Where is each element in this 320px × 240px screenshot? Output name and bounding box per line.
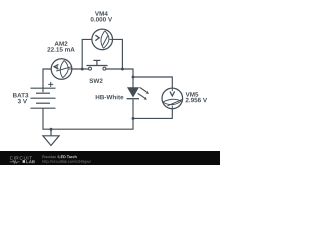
label HB-White xyxy=(96,95,124,100)
node B VM4 right junction xyxy=(121,68,124,71)
LED HB-White xyxy=(127,87,139,99)
label 0.000 V xyxy=(91,17,112,21)
watermark title xyxy=(59,155,77,158)
voltmeter VM4 xyxy=(92,29,113,50)
LED light arrow 1 xyxy=(140,87,150,94)
label 22.15 mA xyxy=(47,47,74,51)
label 3 V xyxy=(18,99,27,103)
label BAT3 xyxy=(13,93,28,97)
logo square icon xyxy=(23,160,25,163)
battery BAT3 xyxy=(31,88,56,108)
wire VM5 top lead xyxy=(133,77,172,88)
wire battery positive to ammeter xyxy=(43,69,51,92)
watermark bar xyxy=(0,151,220,165)
node D LED-VM5 bottom junction xyxy=(132,117,135,120)
wire LED cathode to battery negative xyxy=(43,99,133,129)
LED light arrow 2 xyxy=(138,93,147,100)
battery plus sign xyxy=(48,82,53,87)
label 2.956 V xyxy=(186,98,207,102)
logo squiggle xyxy=(10,161,20,164)
voltmeter VM5 xyxy=(162,88,183,109)
wire switch to LED anode xyxy=(106,69,133,88)
label VM4 xyxy=(95,11,108,15)
ammeter AM2 xyxy=(51,59,72,80)
label VM5 xyxy=(186,92,199,96)
switch SW2 xyxy=(86,60,107,70)
node GND ground junction xyxy=(50,128,53,131)
wire ammeter to switch xyxy=(72,68,89,70)
label SW2 xyxy=(89,79,102,83)
node A switch-VM4 left junction xyxy=(81,68,84,71)
watermark url xyxy=(43,160,91,164)
watermark author xyxy=(43,155,59,158)
wire VM4 left lead xyxy=(82,39,92,69)
logo LAB xyxy=(26,160,28,163)
wire VM4 right lead xyxy=(113,39,123,69)
label AM2 xyxy=(55,41,68,45)
logo CIRCUIT xyxy=(10,156,13,159)
node C VM5 top junction xyxy=(132,76,135,79)
wire VM5 bottom lead xyxy=(133,109,172,119)
ground xyxy=(43,129,59,145)
